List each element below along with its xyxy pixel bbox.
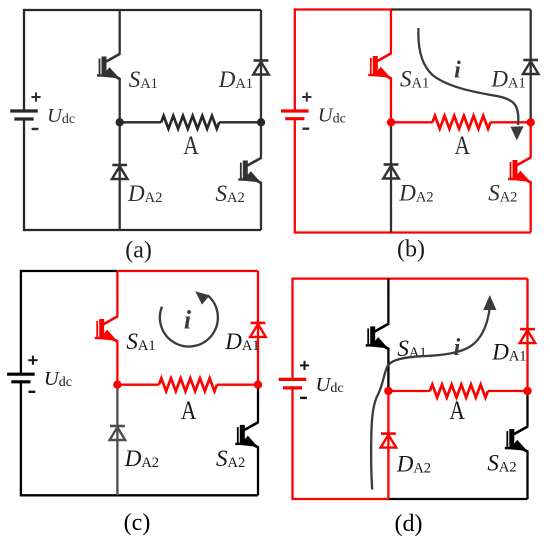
svg-text:A: A: [455, 131, 471, 160]
svg-text:A: A: [183, 131, 199, 160]
svg-text:(a): (a): [125, 238, 152, 264]
svg-text:(d): (d): [395, 511, 423, 537]
svg-text:A: A: [181, 396, 197, 425]
svg-text:(c): (c): [124, 510, 151, 536]
svg-text:i: i: [454, 335, 461, 361]
svg-text:(b): (b): [397, 237, 425, 263]
svg-text:A: A: [449, 396, 465, 425]
svg-text:i: i: [454, 58, 461, 84]
svg-text:i: i: [184, 306, 192, 335]
